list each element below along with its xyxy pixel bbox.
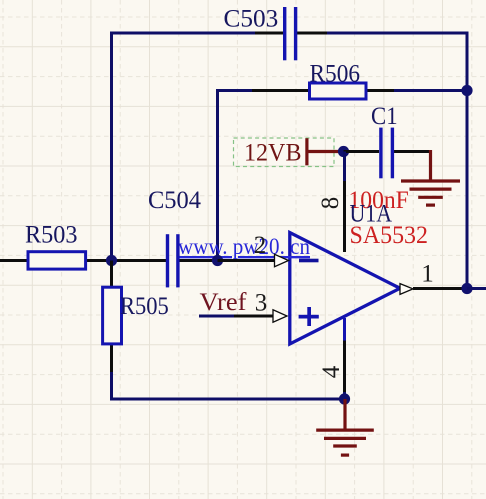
junction [461,283,472,294]
junction [338,146,349,157]
pin 8 [343,181,346,252]
svg-text:12VB: 12VB [244,138,302,167]
resistor R505 [103,261,122,373]
wire [110,32,113,261]
junction [461,85,472,96]
wire [467,287,486,290]
wire [343,392,346,399]
svg-text:www. pw20. cn: www. pw20. cn [178,234,310,260]
wire [327,32,467,35]
wire [466,32,469,289]
svg-text:2: 2 [254,232,267,259]
ground [316,399,374,455]
capacitor C503 [255,7,327,60]
capacitor C504 [114,234,218,287]
wire [343,152,346,182]
wire [199,315,234,318]
resistor R506 [252,83,395,99]
resistor R503 [0,252,112,269]
pin 4 [343,318,346,392]
svg-text:SA5532: SA5532 [350,220,429,249]
svg-text:4: 4 [318,365,345,378]
ground [401,150,460,205]
op-amp U1A [290,233,400,345]
capacitor C1 [344,128,430,179]
junction [106,255,117,266]
pin 1 [400,284,462,295]
svg-text:R506: R506 [310,59,361,88]
junction [339,393,350,404]
svg-text:8: 8 [317,197,344,210]
svg-text:C504: C504 [148,185,201,214]
junction [212,255,223,266]
wire [112,32,257,35]
wire [394,89,467,92]
svg-text:R505: R505 [120,291,169,320]
svg-text:Vref: Vref [200,287,248,316]
wire [110,372,345,399]
pin 3 [234,310,287,322]
power port 12VB [234,138,340,167]
svg-text:C1: C1 [371,101,398,130]
svg-text:C503: C503 [224,4,279,33]
svg-text:R503: R503 [25,220,78,249]
pin 2 [218,254,289,266]
svg-text:3: 3 [255,290,268,317]
svg-text:1: 1 [421,261,434,288]
wire [218,89,254,261]
